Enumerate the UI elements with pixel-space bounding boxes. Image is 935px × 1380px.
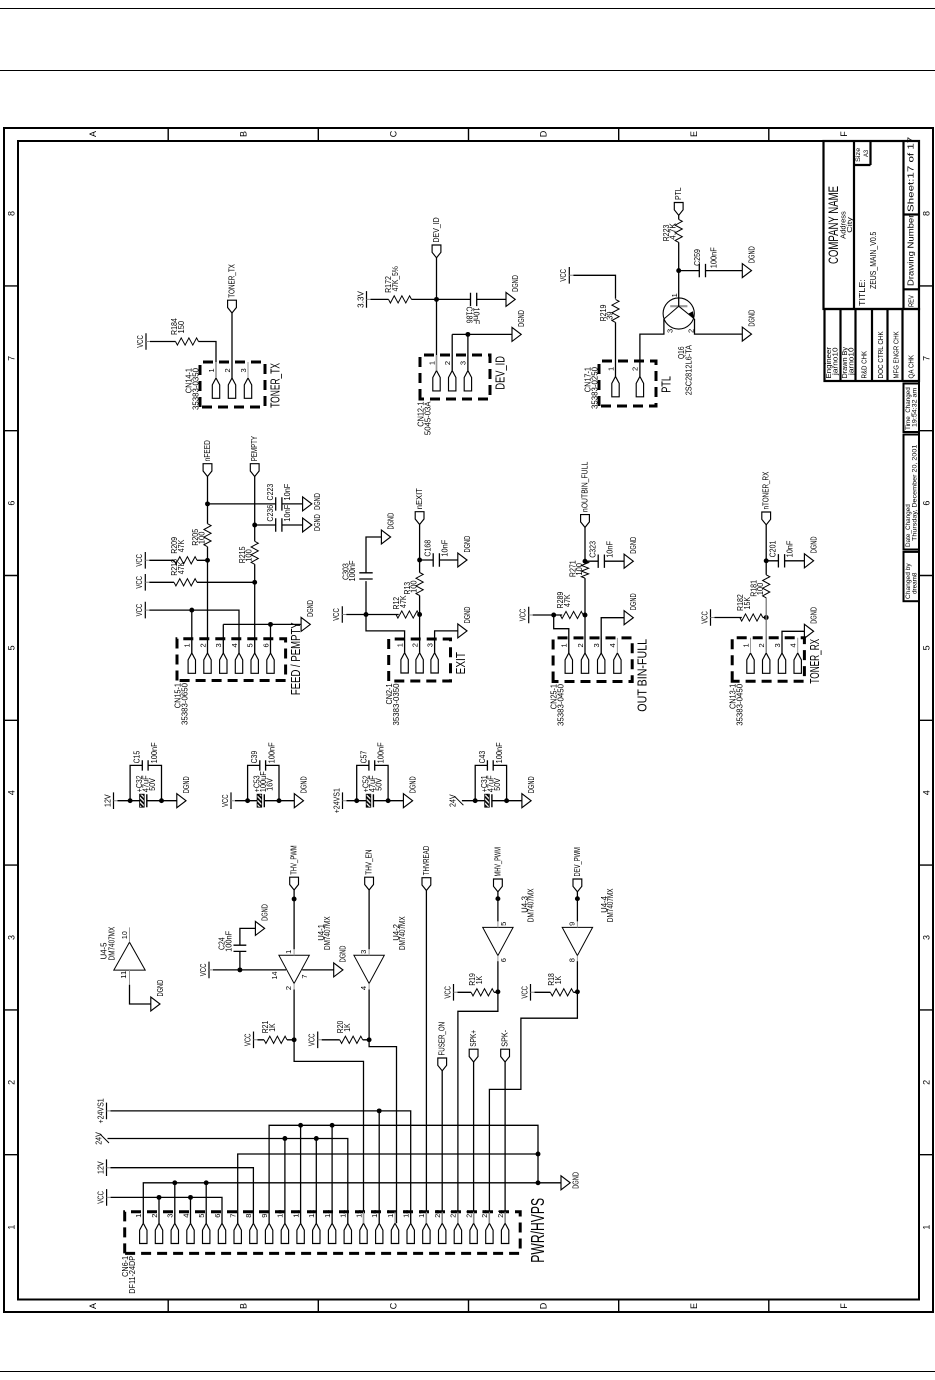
wire C57 loop top bbox=[356, 765, 368, 800]
wire CN6 pin 13 to ground branch bbox=[331, 1125, 333, 1223]
svg-text:VCC: VCC bbox=[559, 269, 568, 282]
power 12V (bulk caps) bbox=[103, 792, 117, 809]
svg-text:50V: 50V bbox=[374, 778, 383, 791]
wire node nEXIT to C168 bbox=[419, 559, 433, 561]
svg-text:3: 3 bbox=[921, 935, 931, 940]
capacitor C57 (100nF) bbox=[359, 742, 385, 770]
wire node nFEED to C223 bbox=[207, 503, 275, 505]
power VCC (CN15 pins 1-4) bbox=[135, 602, 149, 619]
connector CN25-1 pin 4 bbox=[608, 638, 621, 673]
wire node nEXIT to flag bbox=[418, 525, 420, 561]
junction R289 / nOUTBIN net bbox=[582, 613, 587, 618]
connector CN6-1 pin 23 bbox=[480, 1210, 493, 1244]
svg-text:VCC: VCC bbox=[198, 963, 207, 976]
connector CN6-1 refdes label bbox=[121, 1255, 137, 1293]
junction ground bus bbox=[535, 1152, 540, 1157]
svg-text:2: 2 bbox=[921, 1080, 931, 1085]
resistor R12 (47K) bbox=[392, 595, 419, 618]
svg-text:24V: 24V bbox=[94, 1132, 103, 1145]
svg-text:SPK+: SPK+ bbox=[469, 1030, 478, 1047]
junction R12 / nEXIT net bbox=[417, 612, 422, 617]
page header rule bottom bbox=[0, 70, 935, 71]
net flag nOUTBIN_FULL bbox=[580, 461, 589, 527]
wire to MHV_PWM flag bbox=[496, 892, 498, 899]
capacitor C31 (electrolytic C31 47uF) bbox=[480, 775, 502, 807]
power VCC (R218) bbox=[135, 574, 149, 591]
svg-text:4: 4 bbox=[359, 986, 368, 990]
wire FUSER_ON to CN6 pin 20 bbox=[441, 1071, 443, 1223]
resistor R219 (39) bbox=[598, 299, 618, 322]
svg-text:TONER_TX: TONER_TX bbox=[267, 363, 282, 408]
connector CN2-1 (35383-0350) bbox=[388, 639, 450, 681]
ground DGND (Q16 emitter) bbox=[742, 310, 756, 341]
svg-text:2: 2 bbox=[686, 329, 695, 333]
svg-text:3: 3 bbox=[165, 1214, 174, 1218]
wire U4-4 pin 8 out bbox=[576, 961, 578, 992]
svg-text:10nF: 10nF bbox=[282, 484, 291, 501]
ground DGND (12V caps) bbox=[176, 776, 190, 807]
wire R215 to node PEMPTY bbox=[253, 525, 255, 541]
wire VCC to R18 bbox=[534, 991, 550, 993]
svg-text:1: 1 bbox=[206, 368, 215, 372]
svg-text:3: 3 bbox=[359, 950, 368, 954]
capacitor C24 (100nF) bbox=[217, 931, 246, 952]
connector CN6-1 pin 13 bbox=[322, 1210, 335, 1244]
resistor R181 (100) bbox=[749, 575, 769, 598]
junction R20 / U4-2 out bbox=[366, 1037, 371, 1042]
junction ground rail pin 5 bbox=[203, 1180, 208, 1185]
svg-text:C39: C39 bbox=[250, 750, 259, 763]
connector CN6-1 pin 10 bbox=[275, 1210, 288, 1244]
wire C323 to ground bbox=[604, 560, 624, 562]
connector CN25-1 pin 1 bbox=[559, 638, 572, 673]
junction 24V cap node A bbox=[472, 798, 477, 803]
svg-text:15: 15 bbox=[354, 1210, 363, 1218]
frame column tick 2 bbox=[4, 1009, 18, 1011]
junction R182 / nTONER_RX net bbox=[763, 615, 768, 620]
svg-text:D: D bbox=[538, 130, 548, 137]
svg-text:100nF: 100nF bbox=[267, 742, 276, 763]
junction R21 / U4-1 out bbox=[291, 1037, 296, 1042]
wire CN6 pin 4 to VCC rail bbox=[189, 1197, 191, 1223]
wire U4-4 pin 9 to DEV_PWM bbox=[576, 899, 578, 922]
wire CN6 pin 10 to 24V rail bbox=[283, 1139, 285, 1224]
connector CN12-1 pin 1 bbox=[427, 355, 440, 391]
wire 3.3V to R172 bbox=[370, 298, 388, 300]
svg-text:DGND: DGND bbox=[511, 275, 520, 292]
wire C52 branch bbox=[356, 800, 366, 802]
junction 12V cap node B bbox=[159, 798, 164, 803]
svg-text:19:54:32 am: 19:54:32 am bbox=[911, 387, 918, 427]
svg-text:DGND: DGND bbox=[155, 980, 164, 997]
net flag PEMPTY bbox=[250, 436, 259, 477]
svg-text:3: 3 bbox=[238, 368, 247, 372]
svg-text:12: 12 bbox=[307, 1210, 316, 1218]
svg-text:DF11-24DP: DF11-24DP bbox=[128, 1256, 137, 1294]
connector CN15-1 (35383-0650) bbox=[177, 639, 286, 681]
wire VCC to node bbox=[346, 614, 366, 616]
svg-text:8: 8 bbox=[244, 1214, 253, 1218]
svg-text:2: 2 bbox=[757, 643, 766, 647]
wire C15 loop top bbox=[130, 765, 142, 800]
buffer U4-1 (DM7407MX) bbox=[278, 916, 331, 990]
wire VCC rail bbox=[110, 1197, 221, 1223]
svg-text:9: 9 bbox=[567, 922, 576, 926]
svg-text:2: 2 bbox=[6, 1080, 16, 1085]
frame column tick 5 bbox=[4, 575, 18, 577]
wire CN15 pin 2 to R205 bbox=[206, 547, 208, 653]
svg-text:47K: 47K bbox=[176, 539, 185, 552]
svg-text:DGND: DGND bbox=[629, 593, 638, 610]
svg-text:DEV_PWM: DEV_PWM bbox=[572, 847, 581, 877]
svg-text:DGND: DGND bbox=[260, 904, 269, 921]
wire U4-2 pin 3 to THV_EN bbox=[368, 890, 370, 949]
connector CN6-1 pin 5 bbox=[197, 1212, 210, 1244]
svg-text:DM7407MX: DM7407MX bbox=[526, 888, 535, 922]
resistor R205 (100) bbox=[190, 524, 210, 547]
svg-text:5: 5 bbox=[6, 645, 16, 650]
svg-text:VCC: VCC bbox=[307, 1033, 316, 1046]
svg-text:15K: 15K bbox=[742, 596, 751, 609]
net flag THVREAD bbox=[421, 846, 430, 891]
net flag nEXIT bbox=[415, 488, 424, 524]
svg-text:47K: 47K bbox=[562, 594, 571, 607]
title block REV cell bbox=[903, 288, 919, 290]
svg-text:DGND: DGND bbox=[517, 310, 526, 327]
wire R13 to node nEXIT bbox=[418, 560, 420, 573]
capacitor C168 (10nF) bbox=[423, 539, 449, 566]
net flag nFEED bbox=[203, 440, 212, 476]
svg-text:4: 4 bbox=[229, 643, 238, 647]
connector CN17-1 (35383-0250) bbox=[599, 361, 656, 406]
svg-text:3: 3 bbox=[214, 643, 223, 647]
resistor R20 (1K) bbox=[336, 1020, 363, 1043]
connector CN6-1 pin 17 bbox=[385, 1210, 398, 1244]
resistor R218 (47K) bbox=[170, 559, 197, 586]
junction VCC cap node B bbox=[276, 798, 281, 803]
frame row tick 2 bbox=[317, 1300, 319, 1313]
connector CN12-1 pin 3 bbox=[458, 355, 471, 391]
svg-text:7: 7 bbox=[300, 974, 309, 978]
wire R181 to node nTONER_RX bbox=[765, 561, 767, 575]
svg-text:1: 1 bbox=[6, 1225, 16, 1230]
wire U4-5 pin 11 to ground bbox=[129, 985, 150, 1004]
svg-text:MHV_PWM: MHV_PWM bbox=[493, 847, 502, 877]
svg-text:C323: C323 bbox=[588, 541, 597, 558]
wire U4-4 out to CN6 pin 23 bbox=[489, 992, 577, 1223]
wire R205 to node nFEED bbox=[206, 504, 208, 524]
capacitor C201 (10nF) bbox=[768, 540, 794, 567]
svg-text:jarno10: jarno10 bbox=[846, 347, 855, 376]
svg-text:VCC: VCC bbox=[135, 604, 144, 617]
svg-text:FEED / PEMPTY: FEED / PEMPTY bbox=[288, 622, 303, 695]
title block bottom strip divider bbox=[902, 141, 904, 309]
junction node PTL bbox=[676, 268, 681, 273]
ground DGND (VCC caps) bbox=[294, 776, 308, 807]
connector CN15-1 pin 3 bbox=[214, 639, 227, 674]
power VCC (R18) bbox=[520, 984, 534, 1001]
connector CN2-1 refdes label bbox=[385, 683, 401, 726]
svg-text:7: 7 bbox=[921, 356, 931, 361]
resistor R18 (1K) bbox=[547, 973, 573, 996]
svg-text:DGND: DGND bbox=[462, 536, 471, 553]
svg-text:DGND: DGND bbox=[408, 776, 417, 793]
wire node PEMPTY to C236 bbox=[254, 524, 275, 526]
svg-text:EXIT: EXIT bbox=[453, 652, 468, 674]
wire R184 to CN14 pin 1 bbox=[198, 342, 216, 379]
svg-text:DOC CTRL CHK: DOC CTRL CHK bbox=[876, 331, 885, 378]
power VCC (CN6 pins 2,4,6) bbox=[96, 1189, 110, 1206]
junction VCC rail pin 2 bbox=[156, 1195, 161, 1200]
svg-text:9: 9 bbox=[259, 1214, 268, 1218]
connector CN13-1 pin 1 bbox=[741, 638, 754, 674]
connector CN13-1 pin 2 bbox=[757, 638, 770, 674]
junction ground rail pin 3 bbox=[172, 1180, 177, 1185]
svg-text:TONER_TX: TONER_TX bbox=[227, 264, 236, 298]
svg-text:10nF: 10nF bbox=[282, 505, 291, 522]
svg-text:10nF: 10nF bbox=[785, 540, 794, 557]
power 24V bbox=[94, 1132, 109, 1145]
junction node DEV_ID bbox=[434, 297, 439, 302]
svg-text:VCC: VCC bbox=[135, 554, 144, 567]
junction THV_PWM bbox=[291, 897, 296, 902]
wire R209 to nFEED net bbox=[197, 559, 208, 561]
wire R271 to node nOUTBIN_FULL bbox=[584, 560, 586, 562]
svg-text:jarno10: jarno10 bbox=[830, 347, 839, 376]
junction +24VS1 cap node A bbox=[354, 798, 359, 803]
svg-text:3.3V: 3.3V bbox=[356, 290, 365, 307]
resistor R13 (100) bbox=[403, 573, 423, 596]
resistor R21 (1K) bbox=[261, 1020, 287, 1043]
svg-text:DGND: DGND bbox=[462, 606, 471, 623]
svg-text:8: 8 bbox=[6, 211, 16, 216]
svg-text:2: 2 bbox=[222, 368, 231, 372]
svg-text:8: 8 bbox=[921, 211, 931, 216]
net flag FUSER_ON bbox=[437, 1022, 446, 1071]
svg-text:100nF: 100nF bbox=[495, 742, 504, 763]
connector CN17-1 pin 2 bbox=[630, 361, 643, 397]
connector CN25-1 (35383-0450) bbox=[553, 638, 632, 682]
wire CN12 ground net down bbox=[452, 333, 512, 335]
wire U4-1 pin 2 out bbox=[293, 990, 295, 1040]
svg-text:10nF: 10nF bbox=[471, 308, 480, 325]
svg-text:Date_Changed: Date_Changed bbox=[905, 504, 912, 547]
wire VCC to R182 bbox=[714, 617, 741, 619]
connector CN13-1 (35383-0450) bbox=[732, 638, 804, 682]
capacitor C236 (10nF) bbox=[265, 504, 291, 531]
junction MHV_PWM bbox=[495, 896, 500, 901]
ground DGND (CN6) bbox=[561, 1172, 581, 1190]
svg-text:A: A bbox=[88, 1303, 98, 1309]
wire C53 to ground node bbox=[264, 800, 279, 802]
power VCC (U4 pin 14) bbox=[198, 962, 212, 979]
wire VCC node to CN2 pin 1 bbox=[366, 615, 405, 653]
wire U4-3 out to CN6 pin 21 bbox=[457, 992, 497, 1223]
ground DGND (CN12) bbox=[512, 310, 526, 341]
wire C24 node to U4-1 pin 14 bbox=[239, 969, 285, 971]
wire U4-3 pin 6 out bbox=[496, 961, 498, 992]
svg-text:35383-0350: 35383-0350 bbox=[191, 367, 200, 410]
wire C259 to ground bbox=[705, 270, 742, 272]
junction DEV_PWM bbox=[574, 896, 579, 901]
svg-text:12V: 12V bbox=[96, 1161, 105, 1174]
frame column tick 7 bbox=[4, 285, 18, 287]
net flag SPK- bbox=[500, 1030, 509, 1062]
power VCC (TONER_TX pull-up) bbox=[135, 333, 149, 350]
wire R182 to nTONER_RX net bbox=[762, 617, 765, 619]
title block cell Drawn By bbox=[840, 347, 856, 379]
connector CN12-1 (5045-03A) bbox=[420, 355, 490, 399]
wire U4-1 pin 1 to THV_PWM bbox=[293, 899, 295, 949]
svg-text:DGND: DGND bbox=[306, 600, 315, 617]
capacitor C52 (electrolytic C52 47uF) bbox=[361, 775, 383, 807]
svg-text:5: 5 bbox=[197, 1214, 206, 1218]
wire ground stub bbox=[161, 800, 176, 802]
svg-text:3: 3 bbox=[6, 935, 16, 940]
svg-text:+24VS1: +24VS1 bbox=[96, 1098, 105, 1124]
svg-text:10: 10 bbox=[120, 931, 129, 939]
wire node to flag nTONER_RX bbox=[765, 525, 767, 561]
junction ground bus west bbox=[535, 1180, 540, 1185]
wire 12V rail bbox=[110, 1168, 253, 1224]
wire CN6 pin 1 to ground rail bbox=[143, 1183, 561, 1223]
svg-text:B: B bbox=[238, 1303, 248, 1309]
wire 24V to caps bbox=[461, 800, 474, 802]
ground DGND (+24VS1 caps) bbox=[403, 776, 417, 807]
ground DGND (CN15) bbox=[301, 600, 315, 631]
wire CN25 pin 3 to ground bbox=[601, 618, 624, 653]
junction node nEXIT bbox=[417, 558, 422, 563]
wire CN6 pin 11 to ground branch bbox=[299, 1125, 301, 1223]
junction R209 / nFEED net bbox=[205, 558, 210, 563]
svg-text:DGND: DGND bbox=[313, 493, 322, 510]
svg-text:SPK-: SPK- bbox=[500, 1030, 509, 1047]
wire ground stub bbox=[506, 800, 521, 802]
wire C39 loop bottom bbox=[265, 765, 278, 800]
svg-text:1K: 1K bbox=[267, 1023, 276, 1032]
junction VCC bus pin 1 bbox=[189, 608, 194, 613]
svg-text:1K: 1K bbox=[474, 975, 483, 984]
svg-text:Changed by: Changed by bbox=[905, 563, 912, 599]
svg-text:100: 100 bbox=[574, 562, 583, 575]
wire CN12 pin 2 to ground net bbox=[451, 334, 453, 370]
wire CN6 pin 9 ground branch bbox=[269, 1125, 538, 1223]
wire R19 to out net bbox=[494, 991, 498, 993]
svg-text:35383-0450: 35383-0450 bbox=[735, 683, 744, 726]
svg-text:C168: C168 bbox=[423, 539, 432, 556]
wire C168 to ground bbox=[439, 559, 457, 561]
wire SPK- to CN6 pin 24 bbox=[504, 1062, 506, 1223]
wire SPK+ to CN6 pin 22 bbox=[472, 1062, 474, 1223]
wire node to C323 bbox=[585, 560, 598, 562]
connector CN15-1 pin 5 bbox=[245, 639, 258, 674]
svg-text:12V: 12V bbox=[103, 794, 112, 807]
wire VCC node to R12 bbox=[366, 614, 399, 616]
wire CN15 pin 3 to ground net bbox=[222, 624, 224, 653]
junction VCC node (CN25) bbox=[551, 613, 556, 618]
connector CN25-1 pin 3 bbox=[592, 638, 605, 673]
svg-text:DM7407MX: DM7407MX bbox=[397, 916, 406, 950]
svg-text:6: 6 bbox=[499, 958, 508, 962]
svg-text:DGND: DGND bbox=[747, 246, 756, 263]
wire +24VS1 to caps bbox=[346, 800, 356, 802]
power +24VS1 (bulk caps) bbox=[332, 788, 346, 814]
capacitor C53 (electrolytic C53 100uF) bbox=[252, 771, 274, 807]
junction R19 / U4-3 out bbox=[495, 989, 500, 994]
junction 24V rail pin 12 bbox=[313, 1136, 318, 1141]
svg-text:35383-0450: 35383-0450 bbox=[556, 683, 565, 726]
wire CN6 pin 16 to +24VS1 rail bbox=[378, 1111, 380, 1223]
power VCC (bulk caps) bbox=[220, 792, 234, 809]
ground DGND (U4-1 pin 7) bbox=[333, 945, 347, 976]
svg-text:2SC2812L6-TA: 2SC2812L6-TA bbox=[684, 344, 693, 395]
wire VCC to R184 bbox=[150, 341, 176, 343]
svg-text:A3: A3 bbox=[863, 150, 870, 157]
wire C15 loop bottom bbox=[148, 765, 161, 800]
frame row tick 5 bbox=[767, 1300, 769, 1313]
svg-text:QA CHK: QA CHK bbox=[906, 355, 915, 379]
svg-text:10nF: 10nF bbox=[440, 540, 449, 557]
ground DGND (U4-5 pin 11) bbox=[150, 980, 164, 1011]
svg-text:Time_Changed: Time_Changed bbox=[905, 387, 912, 430]
power VCC (R19) bbox=[443, 984, 457, 1001]
svg-text:nEXIT: nEXIT bbox=[415, 488, 424, 509]
svg-text:nOUTBIN_FULL: nOUTBIN_FULL bbox=[580, 461, 589, 512]
svg-text:47K_5%: 47K_5% bbox=[390, 266, 399, 291]
page header rule top bbox=[0, 8, 935, 9]
svg-text:DEV_ID: DEV_ID bbox=[492, 356, 507, 390]
net flag SPK+ bbox=[469, 1030, 478, 1062]
svg-text:4: 4 bbox=[788, 643, 797, 647]
connector CN6-1 pin 16 bbox=[370, 1210, 383, 1244]
svg-text:VCC: VCC bbox=[518, 609, 527, 622]
junction R18 / U4-4 out bbox=[574, 989, 579, 994]
wire node PTL to C259 bbox=[678, 270, 699, 272]
wire C24 branch bbox=[238, 951, 240, 970]
connector CN2-1 pin 1 bbox=[395, 639, 408, 673]
ground DGND (C24) bbox=[255, 904, 269, 935]
svg-text:VCC: VCC bbox=[220, 794, 229, 807]
svg-text:3: 3 bbox=[425, 643, 434, 647]
net flag PTL bbox=[674, 187, 683, 215]
svg-text:50V: 50V bbox=[148, 778, 157, 791]
connector CN2-1 pin 2 bbox=[410, 639, 423, 673]
wire to THV_PWM flag bbox=[293, 890, 295, 899]
svg-text:1: 1 bbox=[559, 643, 568, 647]
connector CN25-1 refdes label bbox=[549, 683, 565, 726]
net flag TONER_TX bbox=[227, 264, 236, 313]
wire C43 loop bottom bbox=[493, 765, 506, 800]
svg-text:47K: 47K bbox=[398, 595, 407, 608]
svg-text:100nF: 100nF bbox=[709, 247, 718, 268]
wire VCC node to R289 bbox=[553, 614, 562, 616]
connector CN6-1 pin 12 bbox=[307, 1210, 320, 1244]
wire node DEV_ID to C186 bbox=[436, 298, 470, 300]
wire C31 to ground node bbox=[491, 800, 506, 802]
svg-text:11: 11 bbox=[119, 971, 128, 979]
ground DGND (C168) bbox=[457, 536, 471, 567]
svg-text:F: F bbox=[838, 1303, 848, 1309]
svg-text:A: A bbox=[88, 131, 98, 137]
svg-text:DGND: DGND bbox=[386, 513, 395, 530]
title block approvals divider bbox=[854, 309, 856, 381]
wire CN17 pin 2 to Q16 pin 3 bbox=[639, 319, 663, 377]
svg-text:5: 5 bbox=[921, 645, 931, 650]
capacitor C323 (10nF) bbox=[588, 541, 614, 568]
connector CN12-1 pin 2 bbox=[443, 355, 456, 391]
wire node to flag nOUTBIN_FULL bbox=[584, 527, 586, 561]
wire R218 to PEMPTY net bbox=[197, 581, 255, 583]
